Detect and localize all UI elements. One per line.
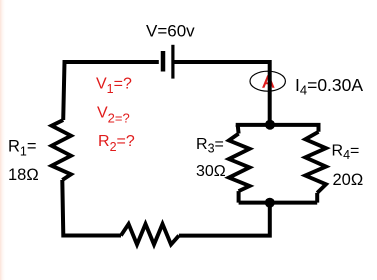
battery V long thin plate (positive) (171, 45, 174, 79)
svg-text:18Ω: 18Ω (8, 166, 39, 184)
battery V short thick plate (negative) (161, 51, 166, 72)
junction node bottom (dot) (265, 198, 275, 208)
resistor R1 zigzag (52, 120, 71, 180)
parallel block top rail (238, 125, 319, 132)
stub from R3 to bottom rail (237, 191, 241, 203)
svg-text:30Ω: 30Ω (196, 163, 226, 180)
resistor R3 zigzag (229, 134, 250, 192)
stub from R4 to bottom rail (315, 193, 319, 203)
resistor R4 zigzag (305, 132, 326, 193)
wire left-bottom vertical and bottom-left horizontal (62, 180, 121, 236)
left stub from top rail to R3 (236, 125, 241, 134)
wire bottom-right horizontal and up to bottom node (179, 203, 270, 236)
ammeter ellipse (250, 71, 285, 91)
wire top-right segment and right vertical down to node (175, 62, 270, 125)
resistor R2 zigzag (bottom) (121, 224, 179, 245)
parallel block bottom rail (239, 201, 318, 205)
svg-text:V=60v: V=60v (146, 22, 195, 41)
junction node top (dot) (265, 120, 275, 130)
svg-text:20Ω: 20Ω (333, 171, 364, 189)
wire top-left segment and left vertical down to R1 (63, 62, 159, 120)
